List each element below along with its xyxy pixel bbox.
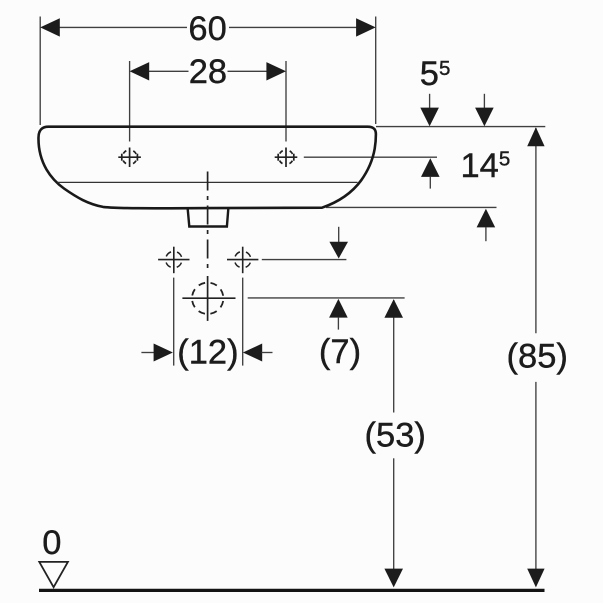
dim 14.5 down arrow tail [483, 94, 485, 109]
dim (12) left arrow tail [141, 352, 154, 354]
dim 5.5 down arrow [420, 108, 439, 127]
big circle vertical centerline [207, 276, 209, 321]
centerline (dash-dot) [207, 172, 209, 270]
dim (53) line upper segment [393, 300, 395, 413]
dim (85) up arrow [527, 127, 544, 146]
dim (12) right arrow [243, 344, 262, 362]
dim (53) up arrow [384, 299, 403, 318]
dim 60 right extension line [375, 17, 377, 125]
dim 28 right arrow [266, 62, 286, 80]
dim 28 left arrow [130, 62, 150, 80]
basin bottom level line right [326, 206, 497, 208]
svg-text:145: 145 [461, 147, 511, 185]
dim (7) up arrow [329, 299, 348, 318]
dim (53) line lower segment [393, 458, 395, 570]
basin top edge extension line right [376, 126, 545, 128]
dim 60 line right segment [229, 26, 366, 28]
faucet level line right [304, 156, 437, 158]
svg-text:55: 55 [420, 55, 451, 93]
small crosshair right [227, 247, 258, 274]
dim 5.5 up arrow [421, 158, 440, 177]
svg-text:(12): (12) [177, 334, 238, 372]
dim (85) line lower segment [535, 382, 537, 570]
dim 60 line left segment [50, 26, 187, 28]
dim (12) right extension line [242, 278, 244, 366]
basin inner rim line [58, 181, 358, 183]
dim 60 left extension line [39, 17, 41, 126]
dim 28 left extension line [129, 61, 131, 142]
dim (53) down arrow [384, 569, 403, 588]
dim (7) down arrow tail [338, 227, 340, 242]
svg-text:(7): (7) [319, 333, 361, 371]
svg-text:60: 60 [188, 10, 226, 48]
dim 60 right arrow [356, 18, 376, 36]
svg-text:28: 28 [189, 53, 227, 91]
ground line [39, 589, 545, 592]
faucet hole right [275, 148, 298, 168]
basin outline [38, 127, 375, 209]
dim 14.5 up arrow [477, 209, 496, 228]
dim 28 right extension line [285, 61, 287, 142]
svg-text:(53): (53) [365, 416, 426, 454]
dim (12) right arrow tail [262, 352, 273, 354]
dim 14.5 down arrow [475, 108, 494, 127]
dim 5.5 down arrow tail [429, 94, 431, 109]
small crosshair left [158, 247, 189, 274]
dim 60 left arrow [40, 18, 60, 36]
dim 5.5 up arrow tail [429, 177, 431, 189]
dim (12) left extension line [173, 278, 175, 366]
crosshair level line right [262, 259, 347, 261]
dim 28 line left segment [140, 70, 189, 72]
faucet hole left [118, 148, 141, 168]
dim (7) up arrow tail [337, 317, 339, 329]
dim (85) down arrow [527, 569, 544, 588]
dim 28 line right segment [228, 70, 277, 72]
big dashed circle (siphon) [192, 283, 223, 314]
dim (85) line upper segment [535, 128, 537, 333]
big circle horizontal centerline [182, 297, 235, 299]
svg-text:0: 0 [42, 524, 61, 562]
datum triangle [39, 562, 68, 587]
dim 14.5 up arrow tail [485, 227, 487, 241]
drain tailpiece [188, 209, 229, 227]
dim (7) down arrow [329, 242, 348, 259]
dim (12) left arrow [154, 344, 173, 362]
svg-text:(85): (85) [507, 338, 568, 376]
siphon level dim line [248, 297, 405, 299]
